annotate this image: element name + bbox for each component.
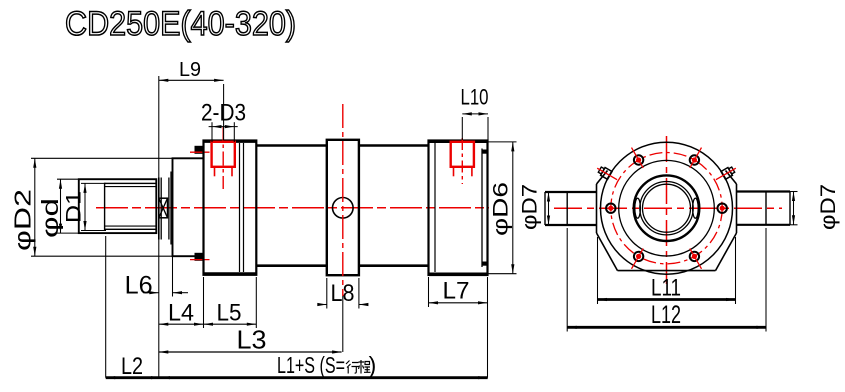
flange bolts: [718, 204, 727, 213]
left flange: [204, 141, 257, 275]
trunnion block hole: [333, 198, 354, 219]
dimension L11: [597, 237, 599, 304]
pilot circle: [619, 160, 715, 256]
dimension L12: [566, 228, 568, 332]
dimension L2: [106, 376, 161, 379]
svg-text:L11: L11: [651, 275, 681, 302]
side view centerline horizontal: [554, 207, 782, 209]
port square right: [451, 142, 474, 167]
dimension phiD7 right: [790, 191, 798, 193]
middle trunnion block: [327, 140, 359, 275]
dimension phid: [57, 178, 80, 180]
rod section box: [159, 198, 168, 218]
port centerline left: [222, 127, 224, 189]
svg-text:L10: L10: [461, 85, 489, 110]
slot ear right: [693, 198, 699, 218]
trunnion block centerline vertical: [342, 104, 344, 296]
bolt circle: [611, 153, 722, 264]
extension line cap end: [487, 277, 489, 378]
svg-text:φD7: φD7: [817, 184, 840, 230]
bore circle inner: [643, 184, 691, 232]
dimension L1+S: [161, 376, 488, 379]
svg-text:D1: D1: [63, 191, 86, 223]
dimension phiD7 left: [548, 192, 550, 225]
dimension L7: [428, 277, 430, 307]
slot ear left: [635, 198, 641, 218]
svg-text:): ): [369, 352, 377, 378]
gland circle thick: [634, 175, 700, 241]
port bore lines right: [453, 167, 455, 177]
bleed screw top: [195, 146, 204, 154]
svg-text:φD6: φD6: [490, 182, 513, 236]
trunnion pin right: [737, 190, 791, 192]
svg-text:L6: L6: [125, 272, 153, 300]
dimension phiD2: [31, 157, 173, 159]
dimension L10: [462, 113, 488, 115]
head cover: [173, 158, 204, 256]
bore circle outer: [640, 182, 693, 235]
rod end thread bore: [105, 183, 157, 229]
svg-text:L8: L8: [331, 280, 355, 307]
dimension L4 L5: [203, 277, 205, 328]
trunnion pin left: [545, 191, 597, 193]
port square left: [212, 142, 235, 167]
extension line thread start: [105, 236, 107, 378]
port centerline right: [461, 138, 463, 184]
label 2-D3: [211, 122, 213, 142]
svg-text:L12: L12: [651, 301, 681, 329]
gland column: [158, 178, 160, 240]
svg-text:L9: L9: [179, 59, 201, 81]
svg-text:L4: L4: [168, 300, 194, 327]
svg-text:L5: L5: [217, 300, 242, 327]
svg-text:L1+S (S=: L1+S (S=: [277, 352, 345, 378]
CJK stroke glyphs: [346, 360, 371, 374]
extension line rod face: [158, 76, 160, 378]
svg-text:L3: L3: [237, 325, 267, 355]
left flange tube seam: [239, 143, 241, 272]
right flange: [429, 141, 488, 276]
flange outer circle: [601, 142, 733, 274]
centerline front view: [96, 207, 489, 209]
svg-text:φD7: φD7: [519, 184, 542, 230]
head plate outline: [596, 184, 598, 233]
bolt radial centerlines: [690, 148, 702, 168]
dimension L6: [172, 243, 174, 297]
dimension L9: [159, 79, 224, 81]
side view centerline vertical: [666, 136, 668, 284]
svg-text:2-D3: 2-D3: [201, 100, 246, 127]
bleed tabs: [721, 166, 735, 180]
cylinder tube: [256, 144, 327, 147]
dimension D1: [81, 182, 106, 184]
bleed screw bottom: [195, 253, 204, 261]
dimension phiD6: [488, 141, 517, 143]
rod end outer body: [79, 179, 157, 233]
end cap seam: [481, 149, 483, 268]
svg-text:φD2: φD2: [10, 189, 36, 251]
svg-text:CD250E(40-320): CD250E(40-320): [65, 5, 296, 43]
svg-text:L7: L7: [443, 278, 470, 305]
dimension L8: [326, 278, 328, 309]
svg-text:L2: L2: [121, 353, 143, 380]
dimension L3: [159, 351, 342, 353]
svg-text:φd: φd: [37, 198, 63, 238]
port bore lines left: [214, 167, 216, 177]
right flange tube seam: [434, 143, 436, 272]
